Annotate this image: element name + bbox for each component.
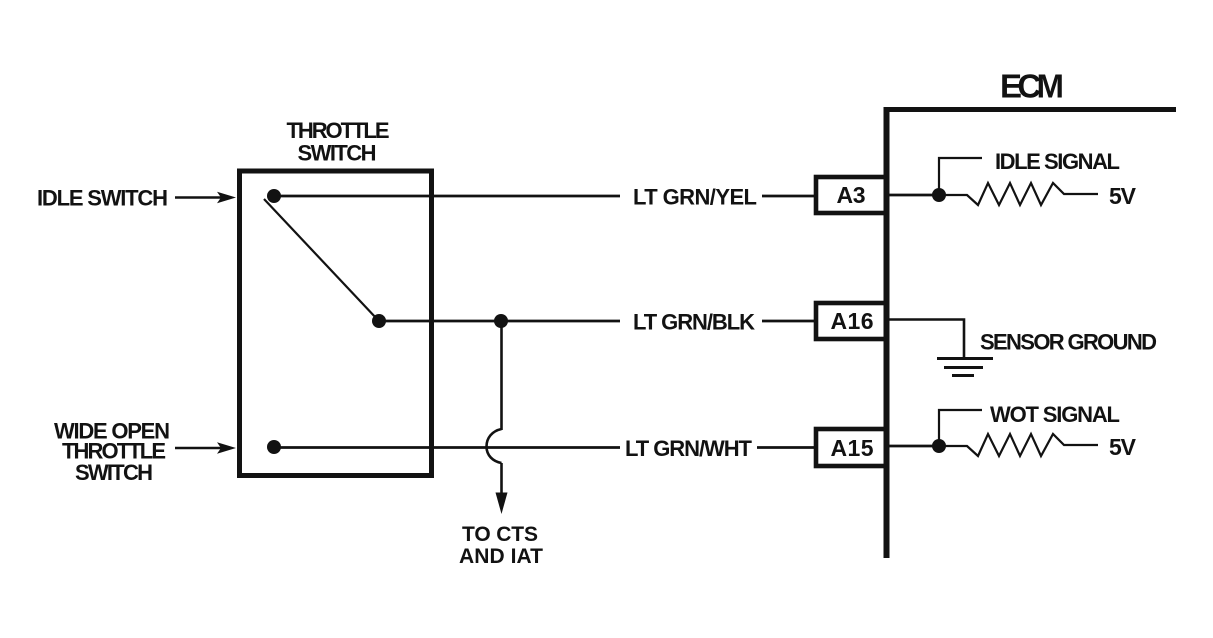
node: WOT signal junction (932, 439, 946, 453)
wire: junction down to hop (500, 321, 503, 430)
wire: LT GRN/BLK label to A16 (762, 320, 816, 323)
switch arm (diagonal) (264, 199, 377, 319)
svg-text:SWITCH: SWITCH (75, 460, 153, 485)
ground (sensor ground) (937, 359, 993, 376)
wire: A3 into ECM to idle node (886, 194, 939, 197)
svg-text:5V: 5V (1109, 183, 1137, 209)
wide open throttle contact dot (267, 440, 281, 454)
common contact dot (372, 314, 386, 328)
svg-text:LT GRN/BLK: LT GRN/BLK (633, 310, 755, 335)
node: junction to CTS/IAT (494, 314, 508, 328)
idle switch contact dot (267, 189, 281, 203)
connector terminal A3 (816, 177, 886, 213)
resistor (WOT pull-up) (939, 434, 1098, 456)
label: THROTTLE SWITCH (above box) (287, 118, 390, 166)
svg-text:ECM: ECM (1000, 68, 1064, 105)
wire: LT GRN/YEL label to A3 (762, 195, 816, 198)
ECM boundary left edge (884, 107, 890, 558)
wire hop over WOT row (487, 429, 502, 463)
wire: idle row from contact to LT GRN/YEL label (274, 195, 620, 198)
connector terminal A16 (816, 303, 886, 339)
wire: idle signal tap (up and right) (939, 158, 982, 195)
svg-text:5V: 5V (1109, 434, 1137, 460)
svg-text:A16: A16 (831, 308, 874, 334)
wire: LT GRN/WHT label to A15 (757, 446, 816, 449)
svg-text:AND IAT: AND IAT (459, 545, 543, 568)
wire: hop down to arrow (500, 463, 503, 505)
arrow to CTS and IAT (496, 493, 508, 515)
svg-text:A3: A3 (837, 182, 866, 208)
svg-text:A15: A15 (831, 435, 874, 461)
svg-text:LT GRN/YEL: LT GRN/YEL (633, 185, 757, 210)
wire: WOT row from contact to LT GRN/WHT label (274, 446, 620, 449)
wire: common row from contact to LT GRN/BLK label (379, 320, 620, 323)
arrow into idle switch contact (175, 192, 236, 203)
svg-text:WOT SIGNAL: WOT SIGNAL (990, 402, 1120, 427)
arrow into wide open throttle contact (175, 442, 236, 453)
svg-text:THROTTLE: THROTTLE (287, 118, 390, 143)
resistor (idle pull-up) (939, 183, 1098, 205)
wire: A15 into ECM to WOT node (886, 445, 939, 448)
svg-text:SWITCH: SWITCH (298, 141, 377, 166)
node: idle signal junction (932, 188, 946, 202)
label: TO CTS AND IAT (459, 523, 543, 568)
svg-text:LT GRN/WHT: LT GRN/WHT (625, 436, 753, 461)
svg-text:TO CTS: TO CTS (462, 523, 538, 546)
ECM boundary top edge (887, 107, 1176, 112)
label: WIDE OPEN THROTTLE SWITCH (54, 419, 170, 486)
wire: WOT signal tap (up and right) (939, 410, 982, 446)
svg-text:SENSOR GROUND: SENSOR GROUND (980, 330, 1157, 355)
throttle switch box (240, 171, 432, 476)
connector terminal A15 (816, 429, 886, 466)
svg-text:IDLE SWITCH: IDLE SWITCH (37, 186, 168, 211)
svg-text:IDLE SIGNAL: IDLE SIGNAL (995, 149, 1120, 174)
wire: A16 to sensor ground (886, 320, 964, 358)
